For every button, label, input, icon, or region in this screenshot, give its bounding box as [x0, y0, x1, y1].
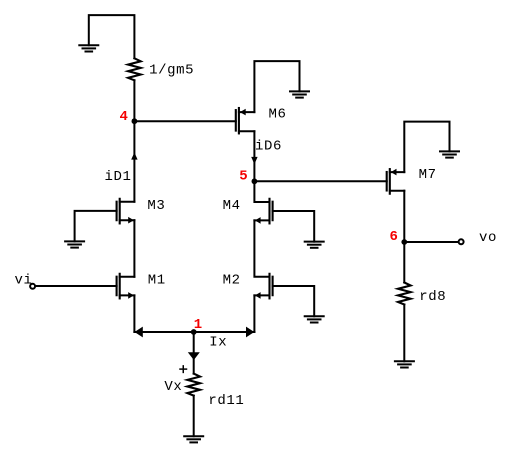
svg-text:M1: M1: [148, 272, 166, 288]
plus sign of Vx: [180, 366, 187, 373]
wire rd11 to ground: [193, 396, 195, 437]
wire M4 source down to M2 drain: [254, 220, 269, 276]
ground G_topleft: [79, 45, 98, 51]
svg-text:iD1: iD1: [105, 169, 132, 185]
svg-text:rd8: rd8: [419, 289, 446, 305]
ground G_M6: [290, 91, 309, 97]
node 6 junction dot: [401, 239, 407, 245]
wire bottom rail node 1: [134, 331, 254, 333]
svg-text:M3: M3: [147, 198, 165, 214]
wire M2 source down to rail: [253, 295, 255, 332]
wire rd8 to ground: [403, 305, 405, 362]
ground G_M4: [305, 242, 324, 248]
current arrow iD6 (down): [251, 157, 257, 164]
svg-text:M4: M4: [223, 198, 241, 214]
wire 1/gm5 to node 4: [133, 80, 135, 121]
resistor rd11: [187, 374, 200, 396]
wire M3 gate to ground: [75, 211, 117, 242]
ground G_M7: [440, 151, 459, 157]
wire M6 source up and over to ground: [254, 61, 299, 112]
svg-text:1: 1: [194, 317, 203, 333]
terminal vi: [30, 284, 35, 289]
svg-text:vi: vi: [15, 273, 33, 289]
current arrow Ix (down): [188, 352, 200, 360]
transistor M1: [117, 274, 135, 299]
arrow rail left (points left): [135, 327, 143, 338]
wire node 1 down to rd11 (Ix path): [193, 332, 195, 374]
ground G_rd11: [184, 436, 203, 442]
current arrow iD1 (up): [131, 152, 137, 159]
node 4 junction dot: [132, 118, 138, 124]
wire node 5 to M7 gate: [254, 180, 386, 182]
wire M7 drain down to node 6: [403, 191, 405, 242]
svg-text:rd11: rd11: [208, 393, 244, 409]
transistor M3: [117, 199, 135, 224]
wire top-left ground to 1/gm5 top: [89, 15, 135, 58]
resistor 1/gm5: [128, 58, 141, 80]
wire M1 source down to rail: [133, 295, 135, 332]
wire M7 source up and over to ground: [404, 122, 449, 173]
node 5 junction dot: [252, 178, 258, 184]
wire node 6 to vo terminal: [404, 241, 458, 243]
svg-text:vo: vo: [479, 230, 497, 246]
wire M2 gate to ground: [273, 286, 315, 316]
terminal vo: [459, 239, 464, 244]
wire node 6 down to rd8: [403, 242, 405, 283]
svg-text:M6: M6: [269, 107, 287, 123]
wire node 4 to M6 gate: [134, 120, 235, 122]
wire M6 drain down to node 5 (iD6 path): [253, 131, 255, 181]
svg-text:4: 4: [120, 109, 129, 125]
transistor M7: [387, 169, 405, 194]
svg-text:5: 5: [239, 168, 248, 184]
wire node 5 down to M4 drain: [254, 181, 269, 202]
wire node 4 down to M3 drain (iD1 path): [133, 121, 135, 202]
svg-text:Vx: Vx: [164, 379, 182, 395]
node 1 junction dot: [191, 329, 197, 335]
wire M3 source down to M1 drain: [133, 220, 135, 277]
svg-text:Ix: Ix: [209, 335, 227, 351]
ground G_M2: [305, 316, 324, 322]
transistor M4 (mirrored): [254, 199, 272, 224]
svg-text:1/gm5: 1/gm5: [149, 63, 194, 79]
transistor M6: [236, 108, 255, 133]
ground G_M3: [65, 241, 84, 247]
svg-text:M7: M7: [419, 167, 437, 183]
arrow rail right (points right): [246, 327, 254, 338]
svg-text:M2: M2: [223, 272, 241, 288]
wire M4 gate to ground: [273, 211, 315, 242]
wire vi to M1 gate: [35, 285, 116, 287]
svg-text:iD6: iD6: [255, 138, 282, 154]
ground G_rd8: [395, 361, 414, 367]
svg-text:6: 6: [390, 229, 399, 245]
resistor rd8: [398, 283, 411, 305]
transistor M2 (mirrored): [254, 274, 272, 299]
